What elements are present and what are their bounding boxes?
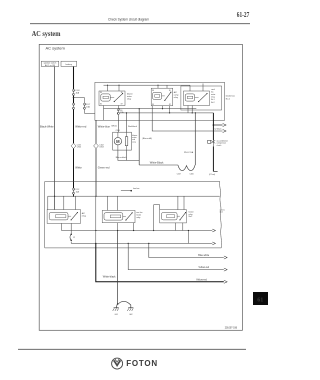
svg-text:White-black: White-black	[103, 275, 117, 278]
wire K2 pins top	[158, 85, 167, 88]
relay P2	[102, 210, 135, 222]
connector C204	[116, 130, 120, 132]
svg-text:Green-red: Green-red	[98, 166, 110, 170]
wire P3 pins top	[178, 196, 184, 209]
svg-text:87: 87	[169, 104, 171, 106]
label Yellow-red	[198, 266, 209, 269]
wire bus lower 2	[71, 243, 212, 244]
svg-text:R5-U 15A: R5-U 15A	[184, 151, 194, 154]
wire	[70, 242, 72, 244]
ground G2	[127, 308, 133, 316]
wire bus inside relay box	[104, 108, 197, 109]
blower motor M1	[113, 132, 132, 150]
svg-text:FOTON: FOTON	[126, 359, 158, 368]
label Red-black	[128, 126, 137, 128]
lower box frame with torn edge	[45, 182, 222, 248]
wire	[73, 194, 75, 196]
wire ignition feed (Black-White)	[54, 67, 56, 210]
label White-Black	[150, 161, 164, 165]
svg-text:battery: battery	[66, 63, 73, 66]
wire K1 pins top	[108, 85, 120, 91]
svg-text:fuse box: fuse box	[133, 188, 140, 190]
svg-text:30: 30	[169, 90, 171, 92]
label White-red	[75, 125, 87, 129]
svg-text:No.2: No.2	[211, 102, 215, 104]
svg-text:White: White	[111, 125, 117, 128]
wire top rail	[104, 85, 191, 86]
wire resistor feed	[126, 112, 127, 132]
fuse F3	[83, 103, 90, 109]
node stub with label	[121, 188, 140, 192]
wire vertical mid	[95, 196, 97, 243]
label continuation	[209, 173, 216, 176]
wire	[73, 96, 75, 104]
label White-blue	[98, 125, 111, 129]
svg-text:C204: C204	[116, 130, 120, 132]
wire P2 pins bottom	[118, 223, 134, 231]
wire P3 coil feed	[153, 205, 160, 231]
label Blue-w-blk	[142, 138, 152, 140]
label Black-White	[40, 125, 54, 129]
label R5-U 15A	[184, 151, 194, 154]
wire P3 pins bottom	[176, 223, 189, 244]
connector C102	[94, 143, 104, 148]
svg-text:86: 86	[152, 90, 154, 92]
wire (White)	[73, 149, 75, 188]
footer rule	[18, 348, 246, 350]
svg-text:85: 85	[100, 104, 102, 106]
relay K1 (blower relay)	[99, 91, 125, 106]
wire P1 pins bottom	[62, 223, 72, 234]
wire to Blue-white output	[148, 243, 224, 258]
ignition switch box	[41, 61, 59, 67]
arrow connector A3	[223, 130, 227, 133]
svg-text:relay: relay	[82, 214, 86, 217]
fuse F7	[70, 234, 75, 241]
svg-text:201007-036: 201007-036	[225, 328, 238, 330]
svg-text:(C2 out): (C2 out)	[209, 173, 216, 176]
wire K1 pins bottom	[104, 106, 119, 109]
relay P3	[160, 210, 187, 223]
wire branch arrow	[213, 124, 222, 126]
label Yellow-red 2	[196, 278, 207, 281]
header rule	[30, 23, 250, 25]
arrow connector A5	[212, 229, 215, 232]
svg-text:Yellow-red: Yellow-red	[198, 266, 209, 269]
fuse F1	[72, 89, 79, 95]
label C2 black	[214, 129, 221, 131]
svg-text:AC system: AC system	[46, 45, 66, 50]
svg-text:relay: relay	[127, 98, 131, 101]
label Blue-white	[198, 254, 210, 257]
svg-text:blower: blower	[127, 92, 133, 95]
arrow connector A7	[224, 256, 227, 259]
svg-text:61: 61	[257, 296, 263, 303]
wire White-blue from relay box	[95, 120, 97, 143]
svg-text:M: M	[116, 139, 120, 144]
arrow connector A9	[224, 280, 227, 283]
header title text	[108, 16, 149, 21]
relay P1 label	[82, 212, 86, 218]
wire motor return vertical	[139, 108, 140, 165]
wire top bus lower box	[48, 196, 220, 197]
svg-text:White-Black: White-Black	[150, 161, 164, 165]
svg-text:85: 85	[152, 104, 154, 106]
node branch to diode box feed	[73, 97, 85, 103]
wire fuse to motor	[117, 115, 119, 133]
resistor R1 (blower resistor)	[125, 132, 128, 150]
relay/fuse box frame	[95, 82, 225, 120]
svg-text:87: 87	[121, 104, 123, 106]
svg-text:Blue-w-black: Blue-w-black	[116, 157, 127, 159]
label C206	[190, 173, 194, 175]
svg-text:Black-White: Black-White	[40, 125, 54, 129]
compressor label	[217, 139, 229, 147]
wire slack to relay box	[194, 113, 196, 165]
svg-text:White: White	[75, 166, 82, 170]
wire to Yellow-red thick output	[96, 243, 224, 281]
svg-text:(Blue-w-blk): (Blue-w-blk)	[142, 138, 152, 140]
svg-text:motor: motor	[136, 213, 141, 216]
svg-text:relay: relay	[136, 216, 140, 219]
relay K2 (A/C relay)	[151, 88, 173, 106]
arrow connector A2	[223, 124, 227, 127]
svg-text:next: next	[220, 211, 224, 214]
wire fuse F3 to relay box	[85, 109, 95, 113]
section title AC system	[32, 30, 61, 38]
label White	[75, 166, 82, 170]
relay P1	[47, 210, 80, 224]
wire ground split arc	[116, 301, 131, 307]
wire into relay P1	[47, 196, 49, 209]
wire ground feed	[117, 231, 119, 305]
wire K3 pins bottom	[188, 106, 192, 113]
wire (Green-red)	[95, 149, 97, 197]
wire bus lower 1	[62, 230, 213, 231]
fuse F2	[72, 103, 74, 109]
note on torn edge	[220, 208, 225, 213]
diagram inner label AC system	[46, 45, 66, 50]
svg-text:C903: C903	[99, 147, 103, 149]
wire K2 pins bottom	[152, 106, 169, 120]
svg-text:No.1: No.1	[189, 216, 193, 218]
wire battery feed	[73, 67, 75, 90]
svg-text:Blue-white: Blue-white	[198, 254, 210, 257]
label Green-red	[98, 166, 110, 170]
compressor connector CN1	[208, 140, 216, 147]
svg-text:C206: C206	[190, 173, 194, 175]
svg-text:G01: G01	[115, 314, 118, 316]
relay P3 label	[189, 210, 194, 218]
diagram outer frame	[39, 44, 242, 330]
svg-text:61-27: 61-27	[237, 11, 250, 19]
svg-text:Diode box: Diode box	[226, 96, 235, 98]
svg-text:Yellow-red: Yellow-red	[196, 278, 207, 281]
fuse F4	[72, 188, 79, 194]
wire row to arrow	[152, 120, 222, 131]
wire P2 pins top	[107, 196, 117, 210]
wire P1 pins top	[64, 196, 76, 209]
relay K3 with diode box	[181, 86, 222, 110]
svg-text:C2 black: C2 black	[214, 129, 221, 131]
label C207	[177, 173, 181, 175]
svg-text:relay: relay	[174, 96, 178, 99]
svg-text:AC system: AC system	[32, 30, 61, 38]
svg-text:assy: assy	[132, 141, 136, 143]
chapter tab 61	[253, 292, 268, 305]
svg-text:12: 12	[73, 237, 75, 239]
wire bus 2 inside relay box	[119, 112, 213, 113]
connector C101	[71, 143, 81, 148]
wire battery feed lower (White-red)	[73, 109, 75, 143]
header page number 61-27	[237, 11, 250, 19]
relay P2 label	[136, 212, 142, 219]
svg-text:motor: motor	[127, 95, 132, 98]
svg-text:White-blue: White-blue	[98, 125, 111, 129]
svg-text:Red-black: Red-black	[128, 126, 137, 128]
label White-black	[103, 275, 117, 278]
wire to Yellow-red output	[128, 243, 224, 269]
battery box	[61, 61, 77, 66]
svg-text:C902: C902	[77, 147, 81, 149]
label Blue-w-black	[116, 157, 127, 159]
ground G1	[113, 308, 119, 316]
svg-text:30: 30	[121, 92, 123, 94]
motor label	[132, 134, 137, 144]
svg-text:C207: C207	[177, 173, 181, 175]
svg-text:clutch: clutch	[217, 144, 222, 147]
wire K3 pins top	[190, 84, 203, 92]
wire compressor feed	[212, 113, 214, 140]
svg-text:motor: motor	[211, 93, 216, 96]
wire ground link with slack loops	[139, 165, 195, 171]
label White	[111, 125, 117, 128]
relay K2 label	[174, 91, 179, 99]
wire resistor down	[126, 150, 128, 160]
arrow connector A8	[224, 268, 227, 271]
svg-text:relay: relay	[211, 96, 215, 99]
footer logo FOTON	[112, 358, 158, 369]
wire motor down	[118, 150, 139, 160]
relay K1 label	[127, 92, 133, 100]
svg-text:Check System circuit diagram: Check System circuit diagram	[108, 16, 149, 21]
relay K3 inner note	[211, 89, 216, 104]
fuse F5	[117, 109, 124, 115]
drawing number	[225, 328, 238, 330]
svg-text:G02: G02	[129, 314, 132, 316]
node junction	[213, 124, 215, 126]
wire compressor down	[213, 147, 217, 172]
arrow connector A6	[212, 242, 215, 245]
svg-text:86: 86	[100, 92, 102, 94]
svg-text:White-red: White-red	[75, 125, 87, 129]
wire vertical to box bottom	[103, 109, 105, 120]
svg-text:ACC or ON: ACC or ON	[45, 64, 56, 67]
label diode box	[226, 96, 235, 101]
